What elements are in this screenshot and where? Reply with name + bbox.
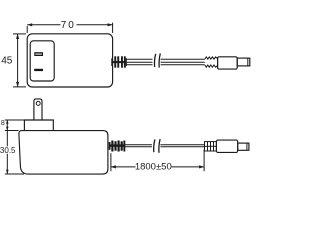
dimension 8: extension lines: [5, 120, 25, 131]
svg-text:30.5: 30.5: [0, 146, 16, 155]
connector boot with ribs (top view): [205, 57, 218, 68]
dimension 45: extension lines: [13, 34, 26, 87]
cable break mark (side view): [154, 139, 160, 153]
connector barrel tip (top view): [237, 58, 250, 66]
connector body (top view): [218, 57, 238, 69]
dimension 30.5: bottom extension line: [5, 173, 24, 175]
connector barrel tip (side view): [238, 143, 249, 150]
dimension 8: dimension line with arrowheads: [6, 120, 9, 131]
svg-text:45: 45: [1, 56, 13, 67]
dimension 1800±50: extension lines: [111, 150, 204, 172]
svg-text:1800±50: 1800±50: [135, 162, 172, 173]
strain relief ribs (top view): [111, 56, 126, 67]
plug face recess (inner rounded rect): [30, 41, 54, 81]
adapter body (side view): [19, 131, 108, 175]
svg-text:70: 70: [61, 20, 76, 31]
connector body (side view): [216, 140, 237, 152]
dimension 70: dimension line with arrowheads: [27, 23, 112, 26]
cable (top view, right of break): [161, 59, 205, 65]
svg-text:8: 8: [1, 120, 5, 127]
dimension text 30.5: [0, 146, 16, 155]
dimension text 70: [61, 20, 77, 31]
dimension 70: extension lines: [27, 23, 112, 33]
connector boot grid (side view): [205, 142, 217, 151]
dimension 30.5: dimension line with arrowheads: [6, 131, 9, 174]
upper blade slot: [34, 52, 43, 56]
adapter body top view: [27, 34, 112, 87]
cable break mark (top view): [154, 53, 160, 67]
dimension 1800±50: dimension line with arrowheads: [111, 165, 204, 168]
cable (side view, two lines, left of break): [125, 145, 152, 147]
cable (top view, three lines, left of break): [127, 59, 153, 65]
plug blade (side view): [34, 99, 42, 120]
strain relief ribs (side view): [109, 141, 126, 152]
dimension 45: dimension line with arrowheads: [16, 34, 19, 87]
raised base platform (side view): [24, 120, 53, 131]
cable (side view, right of break): [160, 145, 204, 147]
lower blade slot: [34, 69, 43, 71]
blade hole: [36, 101, 40, 105]
dimension text 1800±50: [135, 162, 172, 173]
